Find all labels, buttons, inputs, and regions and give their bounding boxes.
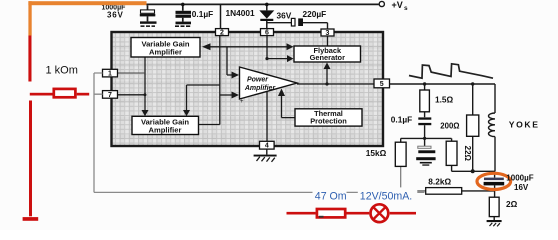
svg-text:Power: Power [247,77,269,84]
svg-text:s: s [404,5,408,12]
svg-text:Amplifier: Amplifier [149,126,182,135]
svg-text:5: 5 [380,81,384,88]
svg-text:+V: +V [392,0,403,10]
svg-text:1.5Ω: 1.5Ω [435,95,454,105]
svg-text:12V/50mA.: 12V/50mA. [360,191,412,203]
svg-text:0.1µF: 0.1µF [192,9,213,19]
svg-text:22Ω: 22Ω [463,146,472,162]
svg-text:7: 7 [108,92,112,99]
svg-text:3: 3 [326,30,330,37]
svg-text:1 kOm: 1 kOm [46,65,78,77]
svg-text:36V: 36V [277,11,292,21]
svg-text:Protection: Protection [310,117,347,126]
svg-text:200Ω: 200Ω [440,121,459,130]
svg-text:Generator: Generator [310,53,345,62]
svg-text:16V: 16V [514,183,529,192]
svg-text:8.2kΩ: 8.2kΩ [428,177,451,187]
svg-text:15kΩ: 15kΩ [366,148,387,158]
svg-text:Amplifier: Amplifier [244,85,277,92]
svg-text:+: + [240,99,244,105]
svg-text:2: 2 [220,30,224,37]
svg-text:47 Om: 47 Om [315,191,347,203]
svg-text:1000µF: 1000µF [506,173,533,182]
svg-text:1: 1 [108,71,112,78]
svg-text:36V: 36V [107,10,124,19]
svg-text:2Ω: 2Ω [506,199,518,209]
svg-text:220µF: 220µF [303,9,327,19]
svg-text:YOKE: YOKE [509,120,540,130]
svg-text:6: 6 [265,30,269,37]
svg-text:Amplifier: Amplifier [149,48,182,57]
svg-text:4: 4 [265,143,269,150]
svg-text:0.1µF: 0.1µF [391,115,412,125]
svg-text:1N4001: 1N4001 [226,8,255,18]
